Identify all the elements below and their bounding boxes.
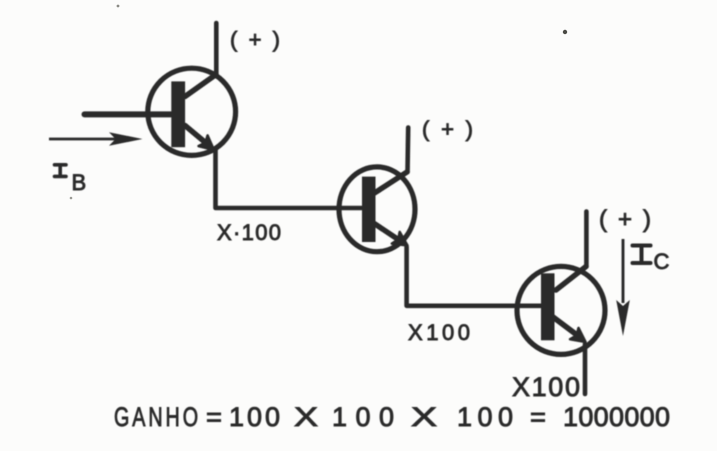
svg-text:X100: X100 <box>512 372 580 402</box>
Q3 base bar <box>541 273 555 340</box>
Q2 base bar <box>362 177 376 242</box>
svg-text:=: = <box>206 402 222 432</box>
paper speck <box>563 30 567 34</box>
Q1 body circle <box>148 68 236 155</box>
wire collector Q2 <box>405 128 410 173</box>
label IB <box>55 165 67 177</box>
svg-text:100: 100 <box>332 402 394 432</box>
svg-text:C: C <box>654 249 670 274</box>
current arrow IC <box>616 239 630 336</box>
Q2 collector stroke <box>375 172 408 193</box>
svg-text:B: B <box>72 170 87 195</box>
wire base Q1 <box>85 111 177 117</box>
svg-text:GANHO: GANHO <box>114 402 201 432</box>
Q2 emitter stroke <box>374 223 400 240</box>
svg-text:( + ): ( + ) <box>599 206 651 233</box>
Q2 body circle <box>339 167 415 252</box>
wire emitter Q2 to base Q3 <box>407 247 546 306</box>
svg-text:1000000: 1000000 <box>563 402 670 432</box>
Q3 collector stroke <box>556 267 586 291</box>
transistor Q1 <box>148 68 236 155</box>
Q1 collector stroke <box>185 75 216 97</box>
gain equation text <box>114 402 670 432</box>
wire emitter Q3 down <box>583 344 588 394</box>
svg-text:X: X <box>411 402 437 432</box>
Q2 emitter arrowhead <box>392 232 408 246</box>
wire collector Q1 <box>214 23 219 75</box>
transistor Q3 <box>517 266 605 354</box>
transistor Q2 <box>339 167 415 252</box>
current arrow IB <box>49 132 143 146</box>
wire emitter Q1 to base Q2 <box>216 150 364 208</box>
Q3 emitter arrowhead <box>570 328 585 342</box>
svg-text:X: X <box>294 402 318 432</box>
svg-text:100: 100 <box>229 402 280 432</box>
label IC <box>633 246 651 264</box>
svg-text:100: 100 <box>457 402 513 432</box>
Q3 emitter stroke <box>553 317 577 335</box>
wire collector Q3 <box>584 212 589 267</box>
Q1 base bar <box>171 81 185 147</box>
Q1 emitter stroke <box>185 126 206 144</box>
svg-text:=: = <box>530 402 546 432</box>
Q1 emitter arrowhead <box>199 136 214 150</box>
Q3 body circle <box>517 266 605 354</box>
svg-text:X·100: X·100 <box>217 220 281 245</box>
